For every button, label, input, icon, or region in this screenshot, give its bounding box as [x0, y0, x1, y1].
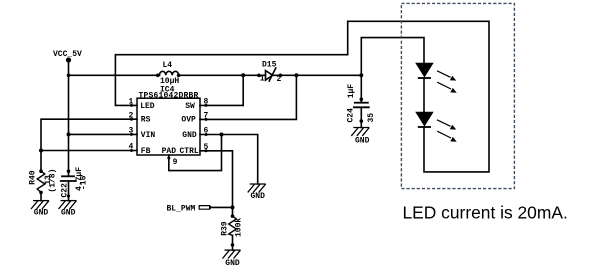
svg-text:GND: GND: [251, 192, 266, 201]
svg-text:VIN: VIN: [141, 131, 156, 140]
svg-text:10µH: 10µH: [160, 77, 179, 86]
svg-text:9: 9: [173, 158, 178, 167]
svg-text:4: 4: [129, 143, 134, 152]
svg-text:2: 2: [129, 111, 134, 120]
svg-text:5: 5: [204, 143, 209, 152]
svg-text:8: 8: [204, 98, 209, 107]
svg-text:1µF: 1µF: [347, 84, 356, 99]
svg-text:TPS61042DRBR: TPS61042DRBR: [139, 92, 199, 101]
svg-text:100k: 100k: [235, 218, 244, 237]
svg-text:GND: GND: [34, 209, 49, 218]
svg-text:C22: C22: [61, 183, 70, 198]
svg-text:(1/8): (1/8): [48, 169, 57, 193]
svg-text:6: 6: [204, 127, 209, 136]
svg-text:R39: R39: [221, 221, 230, 236]
svg-text:BL_PWM: BL_PWM: [167, 205, 196, 214]
svg-text:35: 35: [367, 113, 376, 123]
svg-text:GND: GND: [61, 209, 76, 218]
svg-text:LED current is 20mA.: LED current is 20mA.: [403, 203, 568, 223]
svg-text:GND: GND: [225, 259, 240, 268]
svg-text:C24: C24: [347, 108, 356, 123]
svg-text:1: 1: [260, 74, 265, 83]
svg-text:-16: -16: [80, 175, 89, 190]
svg-text:2: 2: [277, 75, 282, 84]
svg-text:L4: L4: [163, 61, 173, 70]
svg-text:SW: SW: [185, 102, 195, 111]
svg-text:1: 1: [129, 98, 134, 107]
svg-text:LED: LED: [140, 102, 155, 111]
svg-text:D15: D15: [262, 61, 277, 70]
svg-text:R40: R40: [29, 170, 38, 185]
svg-text:GND: GND: [182, 131, 197, 140]
svg-text:FB: FB: [141, 147, 151, 156]
svg-text:VCC_5V: VCC_5V: [53, 50, 82, 59]
svg-text:OVP: OVP: [181, 116, 196, 125]
svg-text:RS: RS: [141, 116, 151, 125]
svg-text:3: 3: [129, 127, 134, 136]
svg-text:GND: GND: [355, 136, 370, 145]
svg-text:CTRL: CTRL: [180, 147, 199, 156]
svg-text:7: 7: [204, 112, 209, 121]
svg-text:PAD: PAD: [162, 147, 177, 156]
